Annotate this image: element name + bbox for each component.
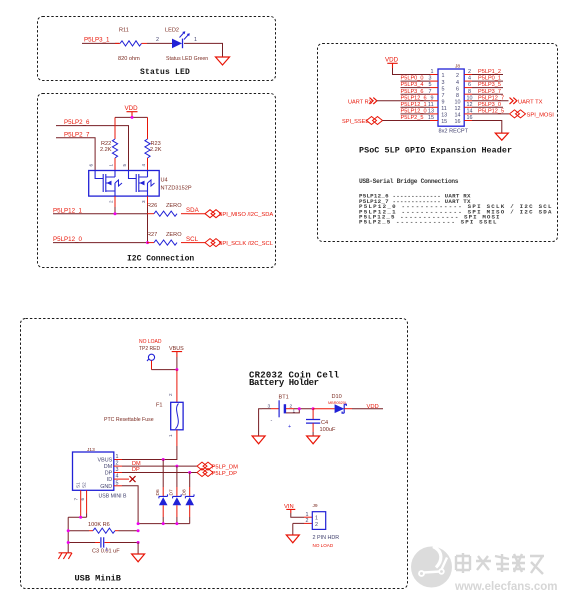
svg-text:SCL: SCL (186, 236, 199, 243)
svg-text:J13: J13 (87, 447, 95, 453)
svg-text:VDD: VDD (385, 57, 399, 64)
svg-text:R26: R26 (147, 203, 157, 209)
transistor Q-B of U4 (right pfet) (129, 171, 139, 193)
node junction C4 tap (312, 407, 315, 410)
svg-text:UART RX: UART RX (348, 99, 373, 105)
svg-text:16: 16 (455, 119, 461, 125)
svg-text:ZERO: ZERO (166, 232, 182, 238)
svg-text:P5LP3_1: P5LP3_1 (84, 37, 110, 44)
wire R26 to offpage (188, 213, 205, 215)
wire D10 to VDD (344, 408, 352, 410)
node junction pin1/pin2 (298, 407, 301, 410)
svg-text:10: 10 (455, 100, 461, 106)
svg-text:D7: D7 (169, 489, 175, 495)
svg-text:SPI_SCLK /I2C_SCL: SPI_SCLK /I2C_SCL (219, 241, 274, 247)
connector J13 body (73, 452, 114, 490)
svg-text:UART TX: UART TX (518, 99, 543, 105)
svg-text:2.2K: 2.2K (150, 147, 162, 153)
svg-text:Status LED: Status LED (140, 68, 190, 77)
offpage connector P5LP_DM (197, 462, 213, 470)
status led section border (38, 17, 276, 81)
svg-text:NO LOAD: NO LOAD (139, 339, 162, 345)
svg-text:100uF: 100uF (320, 427, 336, 433)
svg-text:100K R6: 100K R6 (88, 522, 110, 528)
svg-text:Battery Holder: Battery Holder (249, 378, 319, 388)
svg-text:1: 1 (315, 516, 318, 522)
wire U4 pin 3 to P5LP12_0 net (147, 196, 149, 207)
node junction shield (79, 516, 82, 519)
wire fuse to J13 VBUS row (176, 430, 178, 446)
offpage connector SPI_MOSI (510, 110, 526, 118)
svg-text:4: 4 (456, 80, 459, 86)
capacitor C3 (68, 542, 95, 544)
svg-text:P5LP_DM: P5LP_DM (212, 465, 239, 471)
svg-text:1: 1 (442, 73, 445, 79)
svg-text:www.elecfans.com: www.elecfans.com (454, 581, 557, 593)
node junctions R6 row (67, 529, 70, 532)
svg-text:MBR0520L: MBR0520L (328, 401, 347, 405)
connector J8 body (438, 69, 464, 126)
svg-text:SPI_MOSI: SPI_MOSI (527, 112, 555, 118)
ground (132, 554, 145, 562)
transistor Q-A of U4 (left pfet) (95, 171, 106, 193)
watermark (411, 547, 557, 594)
svg-text:D8: D8 (181, 489, 187, 495)
svg-text:NTZD3152P: NTZD3152P (161, 186, 192, 192)
diode D7 (ESD) (176, 466, 178, 487)
svg-text:2 PIN HDR: 2 PIN HDR (313, 535, 340, 541)
wire P5LP12_0 (53, 242, 147, 244)
svg-text:3: 3 (442, 80, 445, 86)
usb minib section border (21, 319, 408, 589)
svg-text:7: 7 (74, 498, 79, 501)
svg-text:J8: J8 (455, 64, 460, 70)
svg-text:9: 9 (442, 100, 445, 106)
earth ground (chassis) (58, 553, 72, 559)
svg-text:1: 1 (431, 69, 434, 75)
svg-text:1: 1 (116, 454, 119, 460)
svg-text:SPI_SSEL: SPI_SSEL (342, 119, 368, 125)
svg-text:2: 2 (168, 393, 173, 396)
wire J9 pin 2 to ground (304, 522, 312, 524)
resistor R27 (147, 242, 154, 244)
dual pfet U4 body (89, 171, 160, 197)
svg-text:LED2: LED2 (165, 27, 179, 33)
svg-text:15: 15 (441, 119, 447, 125)
svg-text:3: 3 (141, 200, 146, 203)
svg-text:J9: J9 (313, 503, 318, 509)
svg-text:1: 1 (306, 512, 309, 518)
svg-text:C4: C4 (321, 420, 328, 426)
svg-text:2: 2 (306, 518, 309, 524)
wire shield tie (68, 514, 86, 554)
svg-text:14: 14 (455, 113, 461, 119)
node junction DM/D7 (175, 465, 178, 468)
node junction P5LP12_0/U4.3 (146, 241, 149, 244)
svg-text:I2C Connection: I2C Connection (127, 255, 194, 264)
connector J9 body (312, 512, 325, 530)
wire LED2 to ground (184, 43, 223, 56)
node junction VBUS/D6 (162, 458, 165, 461)
svg-text:2.2K: 2.2K (100, 147, 112, 153)
wire battery pin 1 jog (286, 409, 299, 413)
offpage connector SPI_SCLK/I2C_SCL (205, 239, 221, 247)
node junction DP/D8 (188, 471, 191, 474)
wire TP2 to VBUS node (151, 361, 153, 370)
wire VIN to J9 pin 1 (291, 513, 304, 517)
wire battery pin 3 to ground (259, 409, 262, 436)
resistor R23 (147, 117, 149, 139)
svg-text:5: 5 (122, 164, 127, 167)
ground (307, 436, 320, 444)
offpage connector P5LP_DP (197, 469, 213, 477)
svg-text:P5LP_DP: P5LP_DP (212, 471, 238, 477)
svg-text:DP: DP (105, 471, 113, 477)
svg-text:USB MiniB: USB MiniB (75, 574, 121, 584)
node junctions C3 row (67, 541, 70, 544)
svg-text:GND: GND (100, 484, 112, 490)
wire R27 to offpage (188, 242, 205, 244)
svg-text:1: 1 (194, 37, 197, 43)
wire GND pin to ground rail (114, 485, 122, 487)
svg-text:ID: ID (107, 477, 112, 483)
ground (286, 535, 299, 543)
wire GND rail to ground (137, 543, 139, 554)
wire VDD to J8 pin 1 (393, 68, 431, 75)
svg-text:P5LP2_5 ------------- SPI: P5LP2_5 ------------- SPI SSEL (359, 219, 497, 226)
resistor R11 (115, 42, 120, 44)
svg-text:R11: R11 (119, 27, 129, 33)
svg-text:S2: S2 (82, 482, 87, 488)
capacitor C4 (312, 409, 314, 419)
svg-text:PTC Resettable Fuse: PTC Resettable Fuse (104, 417, 154, 423)
svg-text:2: 2 (156, 37, 159, 43)
wire P5LP2_6 to U4 gate pin 5 (56, 126, 129, 171)
svg-text:6: 6 (456, 86, 459, 92)
svg-text:1: 1 (109, 164, 114, 167)
svg-text:2: 2 (109, 200, 114, 203)
svg-text:12: 12 (455, 106, 461, 112)
svg-text:1: 1 (293, 409, 296, 415)
i2c section border (38, 94, 276, 268)
ground (252, 436, 265, 444)
svg-text:VDD: VDD (367, 404, 379, 410)
svg-text:2: 2 (315, 522, 318, 528)
ground (495, 133, 508, 140)
svg-text:NO LOAD: NO LOAD (313, 543, 334, 548)
svg-text:ZERO: ZERO (166, 203, 182, 209)
svg-text:+: + (288, 424, 291, 430)
svg-text:SDA: SDA (186, 207, 200, 214)
svg-text:2: 2 (456, 73, 459, 79)
svg-text:6: 6 (89, 164, 94, 167)
svg-text:1: 1 (168, 434, 173, 437)
diode D8 (ESD) (189, 473, 191, 488)
svg-text:S1: S1 (76, 482, 81, 488)
ground (216, 57, 230, 65)
node VBUS junction (175, 368, 178, 371)
offpage connector UART_TX (509, 98, 516, 104)
fuse F1 PTC (171, 402, 183, 430)
svg-text:D6: D6 (155, 489, 161, 495)
svg-text:C3 0.01 uF: C3 0.01 uF (92, 548, 120, 554)
svg-text:D10: D10 (332, 394, 342, 400)
resistor R22 (114, 117, 116, 139)
svg-text:USB MINI B: USB MINI B (99, 493, 127, 499)
svg-text:13: 13 (441, 113, 447, 119)
wire U4 pin 2 to P5LP12_1 net (114, 196, 116, 207)
svg-text:820 ohm: 820 ohm (118, 56, 140, 62)
gpio expansion header section border (318, 44, 558, 242)
svg-text:4: 4 (141, 164, 146, 167)
svg-text:R27: R27 (147, 232, 157, 238)
node junctions on return rail (137, 522, 140, 525)
wire P5LP2_7 to U4 gate pin 6 (56, 138, 95, 171)
svg-text:7: 7 (442, 93, 445, 99)
svg-text:PSoC 5LP GPIO Expansion Header: PSoC 5LP GPIO Expansion Header (359, 146, 512, 156)
no-connect on ID pin (114, 478, 129, 480)
diode D6 (ESD) (162, 460, 164, 488)
svg-text:F1: F1 (156, 403, 163, 409)
svg-text:USB-Serial Bridge Connection: USB-Serial Bridge Connections (359, 178, 459, 185)
svg-text:11: 11 (441, 106, 447, 112)
svg-text:TP2 RED: TP2 RED (139, 346, 161, 352)
svg-text:8x2 RECPT: 8x2 RECPT (439, 128, 469, 134)
wire VDD rail (115, 116, 148, 118)
svg-text:BT1: BT1 (279, 395, 289, 401)
wire to D10 (313, 408, 335, 410)
LED D2 (LED2) (172, 39, 182, 49)
wire P5LP3_1 to R11 (82, 42, 119, 44)
svg-text:8: 8 (456, 93, 459, 99)
svg-text:-: - (271, 418, 273, 424)
node VDD junction (131, 116, 134, 119)
svg-text:U4: U4 (161, 178, 168, 184)
wire P5LP12_1 (53, 213, 147, 215)
wire battery pin 2 (286, 408, 294, 410)
offpage connector SPI_MISO/I2C_SDA (205, 210, 221, 218)
svg-text:5: 5 (442, 86, 445, 92)
resistor R26 (147, 213, 154, 215)
wire VBUS to fuse (176, 370, 178, 403)
svg-text:SPI_MISO /I2C_SDA: SPI_MISO /I2C_SDA (219, 212, 274, 218)
svg-text:DM: DM (104, 464, 113, 470)
svg-text:Status LED Green: Status LED Green (166, 56, 208, 62)
wire diode return rail (138, 523, 190, 525)
wire R11 to LED2 (147, 42, 172, 44)
svg-text:VBUS: VBUS (98, 458, 113, 464)
node junction P5LP12_1/U4.2 (114, 212, 117, 215)
